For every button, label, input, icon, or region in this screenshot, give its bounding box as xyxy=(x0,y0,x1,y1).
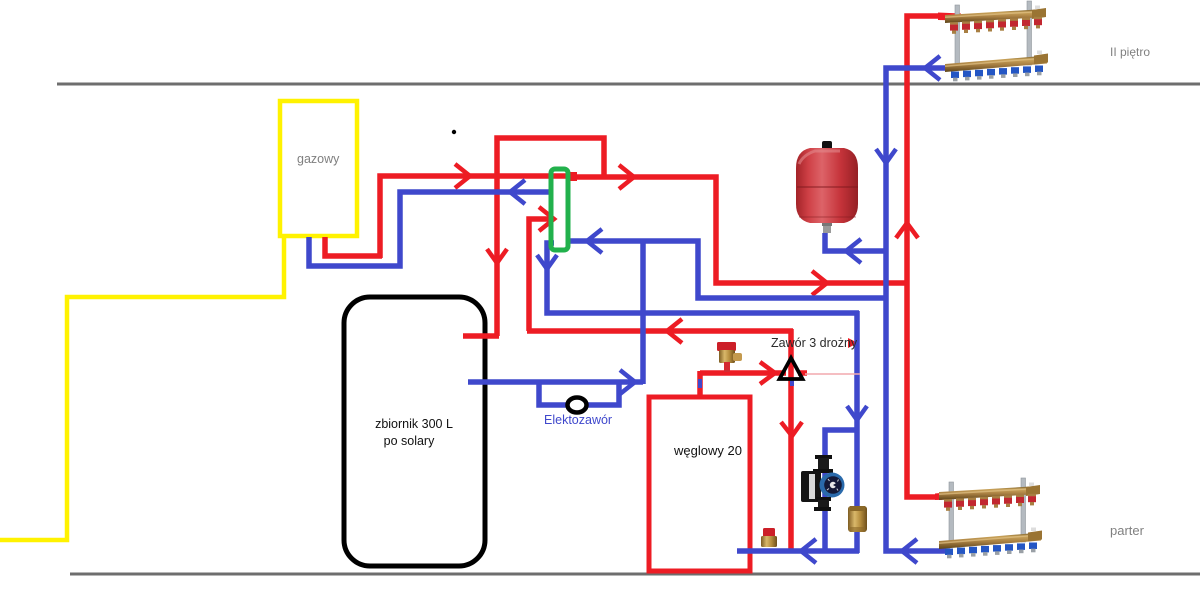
3-way valve triangle xyxy=(780,358,803,379)
wire: up leg to separator network xyxy=(640,239,646,384)
svg-text:II piętro: II piętro xyxy=(1110,45,1150,59)
wire: top bypass loop xyxy=(497,138,604,336)
manifold parter xyxy=(939,478,1042,558)
wire: electrovalve loop xyxy=(539,382,619,405)
arrow down on 3-way drop xyxy=(781,422,802,436)
arrow down separator bottom leg xyxy=(537,255,557,269)
wire: return from 3-way to separator leg xyxy=(527,328,793,334)
expansion vessel xyxy=(796,141,858,233)
arrow left boiler return xyxy=(801,539,816,563)
arrow down on riser xyxy=(876,149,896,163)
arrow left on gas return xyxy=(510,180,525,204)
blue tick remnant 1 xyxy=(698,379,702,388)
gas pipe yellow xyxy=(0,237,284,540)
red arrows xyxy=(455,164,918,436)
floor line parter xyxy=(70,573,1200,576)
hydraulic separator green border xyxy=(551,169,568,250)
svg-text:gazowy: gazowy xyxy=(297,152,340,166)
wire: pump branch xyxy=(825,430,859,551)
storage tank zbiornik xyxy=(344,297,485,566)
wire: boiler supply main xyxy=(380,176,577,258)
svg-text:Elektozawór: Elektozawór xyxy=(544,413,612,427)
wire: safety valve stem xyxy=(724,360,730,373)
arrow right on main supply xyxy=(455,164,470,188)
hydraulic separator white fill xyxy=(551,169,568,250)
wire: 3-way valve drop xyxy=(788,329,794,549)
arrow right tank line xyxy=(620,370,635,394)
arrow up on riser xyxy=(896,223,918,238)
wire: big blue riser xyxy=(886,68,956,551)
wire: boiler top stub xyxy=(697,371,703,397)
check valve xyxy=(848,506,867,532)
arrow left parter manifold feed xyxy=(902,539,917,563)
faint remnant line xyxy=(805,373,860,375)
wire: separator out to riser xyxy=(568,177,909,283)
blue tick remnant 2 xyxy=(790,379,794,386)
wire: stub right of triangle xyxy=(798,370,807,376)
safety valve on boiler return xyxy=(761,528,777,547)
arrow left separator right xyxy=(587,229,602,253)
safety valve on 3-way line xyxy=(717,342,742,372)
svg-text:węglowy 20: węglowy 20 xyxy=(673,443,742,458)
manifold II pietro xyxy=(945,1,1048,81)
wire: tank outlet line xyxy=(468,379,643,385)
circulation pump xyxy=(801,455,845,511)
coal boiler weglowy box xyxy=(649,397,750,571)
arrow left II pietro manifold feed xyxy=(925,56,940,80)
wire: red into tank xyxy=(463,333,499,339)
arrow right separator out xyxy=(619,165,634,189)
red nozzle at II pietro manifold xyxy=(938,13,961,21)
arrow down on bypass leg xyxy=(487,249,507,263)
svg-text:zbiornik 300 L: zbiornik 300 L xyxy=(375,417,453,431)
node dot above loop xyxy=(452,130,456,134)
electrovalve symbol xyxy=(568,398,587,413)
floor line II pietro xyxy=(57,83,1200,86)
svg-text:po solary: po solary xyxy=(384,434,435,448)
arrow right to riser xyxy=(812,271,827,295)
arrowhead into separator xyxy=(539,207,554,231)
small red arrow at label xyxy=(848,338,858,348)
wire: separator bottom leg xyxy=(547,243,859,313)
svg-text:parter: parter xyxy=(1110,523,1145,538)
svg-text:Zawór 3 drożny: Zawór 3 drożny xyxy=(771,336,858,350)
wire: 3-way valve horizontal xyxy=(700,370,786,376)
wire: red riser to II pietro manifold xyxy=(907,16,943,497)
arrow left on 3-way return xyxy=(667,319,682,343)
red nozzle at parter manifold xyxy=(935,492,957,501)
wire: gas boiler return main xyxy=(309,192,552,266)
arrow left vessel line xyxy=(846,239,861,263)
wire: separator right to down leg xyxy=(568,241,888,298)
wire: expansion vessel connection xyxy=(825,233,888,251)
gas boiler gazowy box xyxy=(280,101,357,236)
separator inlet blob xyxy=(566,172,577,181)
wire: gas boiler red stub xyxy=(325,237,382,256)
arrow down right column xyxy=(847,406,867,420)
wire: coal boiler to separator xyxy=(529,219,551,331)
wire: boiler return line xyxy=(737,548,859,554)
arrow right on 3-way horizontal xyxy=(760,362,775,384)
blue arrows xyxy=(510,56,940,563)
wire: right column down to return xyxy=(854,311,860,553)
